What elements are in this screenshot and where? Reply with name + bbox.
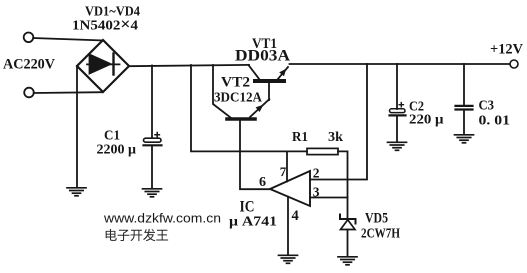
wire bridge negative to ground: [76, 66, 78, 187]
ground (VD5): [338, 257, 357, 265]
AC input terminal (top): [24, 33, 34, 43]
+12V output terminal: [510, 60, 518, 68]
transistor VT1 (DD03A): [249, 65, 289, 81]
wire bottom AC input to bridge: [34, 91, 102, 94]
svg-text:4: 4: [292, 208, 299, 224]
svg-text:6: 6: [259, 175, 266, 190]
svg-text:3DC12A: 3DC12A: [214, 91, 263, 106]
svg-text:220 μ: 220 μ: [409, 113, 444, 128]
svg-text:3k: 3k: [328, 129, 344, 144]
svg-text:7: 7: [280, 164, 287, 179]
svg-text:www.dzkfw.com.cn: www.dzkfw.com.cn: [103, 212, 221, 226]
svg-text:3: 3: [313, 184, 320, 199]
wire pin 7 supply: [286, 151, 288, 181]
AC input terminal (bottom): [24, 88, 34, 98]
resistor R1: [307, 148, 338, 154]
svg-text:R1: R1: [292, 129, 308, 144]
zener diode VD5 (2CW7H): [340, 215, 356, 257]
wire feedback +12V rail to pin 2: [310, 64, 367, 180]
transistor VT2 (3DC12A): [227, 99, 269, 119]
svg-text:AC220V: AC220V: [3, 57, 55, 73]
ground (bridge): [67, 188, 86, 196]
wire R1 right to reference node: [338, 151, 348, 218]
svg-text:VT2: VT2: [221, 75, 250, 91]
transistor VT2 collector wire: [213, 65, 231, 118]
svg-text:VD1~VD4: VD1~VD4: [85, 5, 140, 20]
wire VT2 base down to op-amp output: [240, 121, 269, 189]
svg-text:VD5: VD5: [365, 211, 388, 227]
svg-text:2: 2: [313, 166, 320, 181]
svg-text:2200 μ: 2200 μ: [97, 143, 137, 158]
wire VT2 emitter to VT1 base: [268, 83, 270, 100]
ground (C2): [388, 142, 407, 150]
svg-text:+12V: +12V: [490, 42, 523, 58]
op-amp U1 μA741 triangle: [270, 171, 310, 206]
svg-text:2CW7H: 2CW7H: [361, 227, 400, 242]
wire top AC input to bridge: [33, 38, 103, 41]
capacitor C1 (electrolytic): [144, 66, 162, 188]
svg-text:0. 01: 0. 01: [479, 114, 511, 129]
capacitor C3: [456, 64, 473, 134]
svg-text:IC: IC: [240, 199, 255, 216]
watermark Chinese characters: [106, 229, 168, 241]
svg-text:DD03A: DD03A: [235, 48, 291, 65]
svg-text:C1: C1: [104, 129, 120, 144]
wire pin 4 to ground: [287, 197, 289, 255]
ground (C1): [143, 189, 162, 197]
svg-text:μ A741: μ A741: [229, 215, 277, 230]
wire rail to op-amp supply / R1: [191, 65, 307, 151]
bridge rectifier VD1-VD4: [77, 40, 129, 92]
wire pin 3 reference: [310, 197, 348, 199]
ground (op-amp pin 4): [279, 255, 298, 263]
wire unregulated DC rail: [129, 65, 249, 66]
capacitor C2 (electrolytic): [390, 64, 406, 141]
svg-text:C3: C3: [479, 99, 495, 114]
wire +12V output rail: [290, 63, 510, 65]
ground (C3): [455, 135, 474, 143]
